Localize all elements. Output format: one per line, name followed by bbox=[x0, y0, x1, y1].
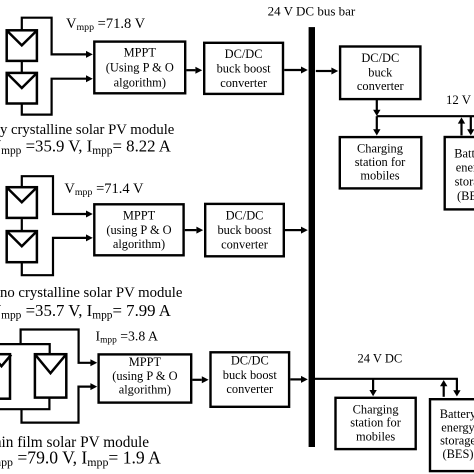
svg-text:buck: buck bbox=[368, 65, 393, 79]
DC/DC buck boost converter block (poly string) bbox=[204, 43, 283, 94]
text: buck boost 3 block caption bbox=[223, 354, 278, 397]
arrowhead: PV2 lead 2 into MPPT2 bbox=[86, 234, 93, 241]
arrowhead: MPPT3 to buck boost 3 bbox=[202, 376, 209, 383]
wire: PV1 negative lead to MPPT1 input 2 bbox=[22, 79, 87, 115]
wire: buck boost 1 output to DC bus bbox=[284, 69, 301, 71]
svg-text:algorithm): algorithm) bbox=[119, 382, 171, 396]
Charging station for mobiles block (12 V branch) bbox=[340, 137, 422, 188]
svg-text:buck boost: buck boost bbox=[217, 223, 272, 237]
Battery energy storage BES block (24 V branch, cut by frame edge) bbox=[430, 399, 474, 471]
wire: PV2 positive lead to MPPT2 input 1 bbox=[22, 176, 87, 214]
wire: PV1 positive lead to MPPT1 input 1 bbox=[22, 18, 87, 55]
24 V DC bus bar (thick vertical bar) bbox=[309, 27, 315, 447]
wire: MPPT1 output to buck boost 1 bbox=[186, 69, 195, 71]
svg-text:Vmpp =79.0 V, Impp= 1.9 A: Vmpp =79.0 V, Impp= 1.9 A bbox=[0, 447, 161, 469]
svg-text:station for: station for bbox=[350, 416, 401, 430]
arrowhead: bus to buck converter bbox=[331, 68, 338, 75]
wire: PV2 negative lead to MPPT2 input 2 bbox=[22, 238, 87, 275]
text: charging station 1 block caption bbox=[355, 141, 406, 182]
text: BES1 block caption bbox=[454, 146, 474, 203]
arrowhead: PV1 lead 2 into MPPT1 bbox=[86, 75, 93, 82]
svg-text:converter: converter bbox=[357, 79, 405, 93]
arrowhead: PV2 lead 1 into MPPT2 bbox=[86, 211, 93, 218]
svg-text:Poly crystalline solar PV modu: Poly crystalline solar PV module bbox=[0, 122, 175, 138]
text: MPPT1 block caption bbox=[106, 46, 174, 90]
Charging station for mobiles block (24 V branch) bbox=[336, 398, 416, 449]
text: MPPT3 block caption bbox=[112, 355, 177, 396]
text: charging station 2 block caption bbox=[350, 402, 401, 443]
arrowhead: MPPT1 to buck boost 1 bbox=[195, 67, 202, 74]
wire: PV3 top paralleling bus bbox=[0, 344, 50, 354]
arrowhead: PV1 lead 1 into MPPT1 bbox=[86, 51, 93, 58]
arrowhead: buck boost 2 to bus bbox=[301, 227, 308, 234]
wire: BES1 discharge arrow stem (down) bbox=[470, 116, 472, 130]
PV module PV3a (thin film, left, cut by frame edge) bbox=[0, 354, 11, 399]
PV module PV2b (mono crystalline string, bottom) bbox=[7, 231, 37, 262]
MPPT block U2 (mono string) bbox=[94, 204, 183, 255]
arrowhead: PV3 lead 1 into MPPT3 bbox=[90, 359, 97, 366]
wire: BES1 charge arrow stem (up) bbox=[460, 123, 462, 136]
text: buck boost 2 block caption bbox=[217, 209, 272, 252]
arrowhead: down into charging station 1 bbox=[373, 129, 380, 135]
text: buck converter block caption bbox=[357, 51, 405, 93]
text: MPPT2 block caption bbox=[106, 208, 171, 251]
svg-text:Battery: Battery bbox=[440, 407, 474, 421]
wire: buck converter output down to 12 V node bbox=[376, 99, 378, 110]
wire: MPPT2 output to buck boost 2 bbox=[185, 229, 197, 231]
arrowhead: down into charging station 2 bbox=[369, 390, 376, 396]
arrowhead: PV3 lead 2 into MPPT3 bbox=[90, 383, 97, 390]
wire: series link PV2a-PV2b bbox=[21, 219, 23, 231]
svg-text:energy: energy bbox=[441, 420, 474, 434]
svg-text:algorithm): algorithm) bbox=[114, 75, 166, 89]
svg-text:mobiles: mobiles bbox=[356, 430, 395, 444]
svg-text:(BES): (BES) bbox=[457, 189, 474, 203]
DC/DC buck boost converter block (mono string) bbox=[205, 204, 284, 256]
arrowhead: BES2 up to 24 V line bbox=[440, 380, 447, 386]
svg-text:Battery: Battery bbox=[454, 146, 474, 160]
PV module PV3b (thin film, right) bbox=[35, 354, 66, 397]
PV module PV1b (poly crystalline string, bottom) bbox=[7, 73, 37, 104]
svg-text:energy: energy bbox=[456, 161, 474, 175]
svg-text:Charging: Charging bbox=[353, 402, 399, 416]
svg-text:algorithm): algorithm) bbox=[113, 237, 165, 251]
svg-text:Mono crystalline solar PV modu: Mono crystalline solar PV module bbox=[0, 285, 183, 301]
wire: PV3 positive lead to MPPT3 input 1 bbox=[21, 330, 91, 363]
svg-text:24 V DC: 24 V DC bbox=[358, 352, 403, 366]
wire: series link PV1a-PV1b bbox=[21, 62, 23, 73]
svg-text:converter: converter bbox=[220, 76, 268, 90]
svg-text:converter: converter bbox=[221, 238, 269, 252]
svg-text:storage: storage bbox=[440, 434, 474, 448]
svg-text:buck boost: buck boost bbox=[217, 62, 272, 76]
wire: DC bus to buck converter bbox=[316, 70, 332, 72]
svg-text:DC/DC: DC/DC bbox=[226, 209, 264, 223]
wire: PV3 negative lead to MPPT3 input 2 bbox=[22, 387, 91, 423]
svg-text:Vmpp =35.7 V, Impp= 7.99 A: Vmpp =35.7 V, Impp= 7.99 A bbox=[0, 301, 171, 322]
net: 24 V DC distribution line bbox=[314, 378, 458, 380]
arrowhead: MPPT2 to buck boost 2 bbox=[196, 227, 203, 234]
svg-text:(BES): (BES) bbox=[443, 447, 474, 461]
svg-text:DC/DC: DC/DC bbox=[225, 47, 263, 61]
svg-text:mobiles: mobiles bbox=[360, 169, 399, 183]
Battery energy storage BES block (12 V branch, cut by frame edge) bbox=[445, 137, 474, 209]
DC/DC buck boost converter block (thin film) bbox=[211, 352, 290, 407]
svg-text:MPPT: MPPT bbox=[124, 46, 157, 60]
svg-text:Charging: Charging bbox=[357, 141, 403, 155]
text: buck boost 1 block caption bbox=[217, 47, 272, 90]
svg-text:buck boost: buck boost bbox=[223, 368, 278, 382]
arrowhead: buck boost 1 to bus bbox=[301, 67, 308, 74]
svg-text:converter: converter bbox=[226, 382, 274, 396]
wire: 24 V line down to charging station 2 bbox=[372, 379, 374, 391]
DC/DC buck converter block (12 V branch) bbox=[340, 47, 420, 100]
text: BES2 block caption bbox=[440, 407, 474, 461]
svg-text:24 V DC bus bar: 24 V DC bus bar bbox=[268, 4, 356, 19]
svg-text:MPPT: MPPT bbox=[123, 208, 156, 222]
wire: BES2 discharge arrow stem (down) bbox=[456, 379, 458, 391]
wire: PV3 bottom paralleling bus bbox=[0, 398, 49, 410]
svg-text:storage: storage bbox=[455, 175, 474, 189]
arrowhead: buck converter down to 12 V line bbox=[373, 110, 380, 116]
svg-text:(Using P & O: (Using P & O bbox=[106, 60, 174, 74]
svg-text:12 V: 12 V bbox=[446, 93, 472, 107]
svg-text:DC/DC: DC/DC bbox=[231, 354, 269, 368]
wire: 12 V node down to charging station 1 bbox=[376, 116, 378, 130]
svg-text:(using P & O: (using P & O bbox=[112, 369, 177, 383]
svg-text:(using P & O: (using P & O bbox=[106, 223, 171, 237]
arrowhead: BES1 up to 12 V line bbox=[458, 117, 465, 123]
wire: MPPT3 output to buck boost 3 bbox=[192, 379, 201, 381]
PV module PV2a (mono crystalline string, top) bbox=[7, 187, 37, 218]
PV module PV1a (poly crystalline string, top) bbox=[7, 30, 37, 61]
svg-text:MPPT: MPPT bbox=[129, 355, 162, 369]
MPPT block U1 (poly string) bbox=[94, 42, 185, 94]
wire: buck boost 2 output to DC bus bbox=[285, 229, 301, 231]
wire: BES2 charge arrow stem (up) bbox=[443, 385, 445, 397]
net: 12 V distribution line bbox=[377, 115, 474, 117]
wire: buck boost 3 output to DC bus bbox=[290, 378, 301, 380]
arrowhead: down into BES1 bbox=[467, 129, 474, 135]
MPPT block U3 (thin film) bbox=[99, 354, 192, 402]
svg-text:Vmpp =35.9 V, Impp= 8.22 A: Vmpp =35.9 V, Impp= 8.22 A bbox=[0, 137, 171, 158]
svg-text:DC/DC: DC/DC bbox=[361, 51, 399, 65]
svg-text:station for: station for bbox=[355, 155, 406, 169]
arrowhead: buck boost 3 to bus bbox=[301, 376, 308, 383]
arrowhead: down into BES2 bbox=[453, 390, 460, 396]
